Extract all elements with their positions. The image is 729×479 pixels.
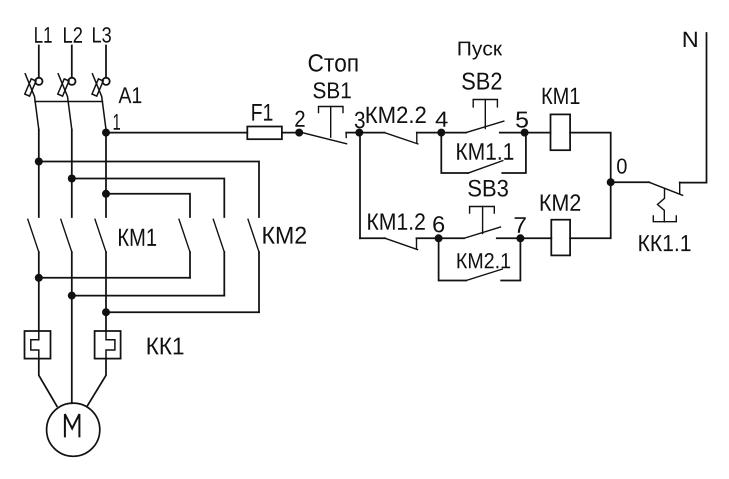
contactor KM1 pole1 blade: [28, 219, 39, 252]
label A1: [119, 87, 142, 103]
wire phase3 lower: [105, 252, 107, 331]
wire SB3 to node7: [497, 237, 521, 239]
wire KM1 coil to node0: [570, 133, 611, 183]
wire L2 lead: [71, 46, 73, 78]
contactor KM2 pole2 blade: [213, 219, 224, 252]
wire phase3 to KM2 pole1: [106, 194, 190, 217]
contact KM1.1 branch right wire: [502, 133, 526, 173]
breaker A1 linkage bar: [35, 101, 102, 103]
breaker A1 pole1 frame: [25, 79, 36, 96]
wire N: [680, 33, 707, 183]
breaker A1 pole1 terminal: [35, 78, 42, 85]
label N: [684, 32, 697, 47]
wire phase2 lower: [71, 252, 73, 403]
button SB1 right stub: [345, 133, 347, 138]
node 1 junction: [102, 129, 110, 137]
contact KM2.2 right stub: [416, 133, 418, 143]
wire L3 lead: [105, 46, 107, 78]
node junction phase2 bottom: [68, 292, 76, 300]
label Pusk: [459, 42, 503, 60]
contact KM2.1 NO blade: [466, 269, 502, 280]
wire heater2 to motor: [88, 359, 106, 406]
wire node0 to KK1.1: [611, 181, 650, 183]
wire node3 down: [359, 133, 361, 239]
contactor KM1 pole2 blade: [61, 219, 72, 252]
wire KM2 pole3 bottom: [258, 252, 260, 312]
node junction phase2 top: [68, 175, 76, 183]
label KK1: [148, 338, 184, 355]
label Stop: [309, 54, 358, 72]
label KM2.2: [367, 107, 426, 124]
node junction phase3 bottom: [102, 308, 110, 316]
wire heater1 to motor: [39, 359, 57, 407]
label L2: [64, 27, 82, 43]
label L3: [93, 27, 111, 43]
button SB2 stem: [484, 100, 486, 129]
node 7 junction: [516, 234, 524, 242]
wire SB2 to node5: [500, 132, 525, 134]
node 7 label: [515, 217, 526, 233]
breaker A1 pole2 terminal: [68, 78, 75, 85]
wire SB1 to node3: [346, 132, 359, 134]
contact KK1.1 NC blade: [649, 182, 682, 195]
contact KM2.1 branch left wire: [439, 238, 467, 280]
contact KM1.2 right stub: [416, 238, 418, 249]
wire F1 to node2: [282, 132, 302, 134]
node junction phase1 top: [35, 158, 43, 166]
button SB1 actuator: [319, 107, 344, 113]
button SB2 NO blade: [466, 121, 504, 133]
label KM2 coil: [541, 194, 581, 211]
label F1: [252, 104, 272, 121]
wire KM2.2 to node4: [417, 132, 442, 134]
button SB1 stem: [330, 107, 332, 138]
fuse F1: [247, 127, 282, 140]
wire bottom bus phase3: [106, 311, 259, 313]
node 6 label: [433, 216, 444, 232]
thermal relay KK1 heater1 element: [31, 331, 39, 359]
wire bottom bus phase1: [39, 277, 190, 279]
wire KM1.2 to node6: [417, 237, 439, 239]
wire KM2 pole2 bottom: [223, 252, 225, 296]
button SB3 actuator: [470, 207, 495, 214]
node 1 label: [114, 114, 120, 130]
thermal relay KK1 heater2 element: [106, 331, 115, 359]
label SB3: [468, 180, 508, 197]
motor M letter: [65, 414, 80, 436]
node 5 label: [516, 112, 528, 128]
coil KM2: [551, 220, 570, 256]
node 6 junction: [435, 234, 443, 242]
wire node4 to SB2: [441, 132, 466, 134]
node 5 junction: [521, 129, 529, 137]
breaker A1 pole3 terminal: [103, 78, 110, 85]
breaker A1 pole2 frame: [58, 79, 69, 96]
label KK1.1: [639, 235, 690, 251]
contact KM1.1 branch left wire: [441, 133, 468, 173]
node 2 junction: [295, 129, 303, 137]
wire bottom bus phase2: [72, 295, 225, 297]
node 0 junction: [607, 178, 615, 186]
contactor KM1 pole3 blade: [95, 219, 106, 252]
wire phase1 lower: [38, 252, 40, 331]
wire node7 to KM2 coil: [520, 237, 551, 239]
node 4 label: [436, 112, 448, 127]
label KM1.1: [457, 143, 513, 160]
wire phase1 to KM2 pole3: [39, 162, 259, 218]
wire L1 lead: [38, 46, 40, 78]
breaker A1 pole3 blade: [92, 74, 106, 130]
contact KK1.1 thermal element: [658, 188, 665, 221]
label KM1 main contacts: [119, 229, 156, 246]
contact KM1.1 NO blade: [468, 161, 503, 173]
contact KK1.1 reset bracket: [653, 216, 676, 222]
label SB2: [462, 73, 501, 90]
coil KM1: [551, 114, 571, 150]
contact KM2.1 branch right wire: [501, 238, 520, 280]
breaker A1 pole3 frame: [92, 79, 103, 96]
wire to KM1.2: [360, 237, 385, 239]
node 2 label: [295, 111, 304, 127]
wire phase3 upper: [105, 130, 107, 218]
label KM2.1: [458, 253, 511, 268]
wire phase2 upper: [71, 130, 73, 218]
button SB2 actuator: [473, 100, 497, 107]
node 0 label: [617, 159, 627, 174]
contact KM1.2 NC blade: [385, 238, 417, 249]
breaker A1 pole1 blade: [25, 74, 39, 130]
wire phase2 to KM2 pole2: [72, 179, 225, 218]
wire phase1 upper: [38, 130, 40, 218]
button SB3 NO blade: [464, 227, 501, 238]
node 4 junction: [437, 129, 445, 137]
thermal relay KK1 heater1 box: [25, 331, 51, 359]
node junction phase1 bottom: [35, 274, 43, 282]
motor M circle: [47, 403, 100, 456]
wire KM2 coil to node0: [570, 182, 611, 238]
button SB3 stem: [482, 207, 484, 234]
wire node5 to KM1 coil: [525, 132, 551, 134]
thermal relay KK1 heater2 box: [95, 331, 121, 359]
node 3 label: [355, 112, 365, 129]
wire KM2 pole1 bottom: [189, 252, 191, 278]
label SB1: [313, 82, 350, 98]
wire node6 to SB3: [439, 237, 464, 239]
label KM2 main contacts: [263, 227, 306, 244]
contactor KM2 pole3 blade: [248, 219, 259, 252]
wire node1 to F1: [106, 132, 247, 134]
node junction phase3 top: [102, 190, 110, 198]
node 3 junction: [355, 129, 363, 137]
label KM1.2: [368, 213, 425, 229]
label L1: [35, 27, 52, 43]
breaker A1 pole2 blade: [58, 74, 72, 130]
contact KK1.1 right stub: [679, 182, 681, 193]
label KM1 coil: [543, 88, 580, 104]
button SB1 NC blade: [302, 133, 347, 144]
contact KM2.2 NC blade: [384, 133, 418, 144]
contactor KM2 pole1 blade: [179, 219, 190, 252]
wire node3 to KM2.2: [359, 132, 384, 134]
